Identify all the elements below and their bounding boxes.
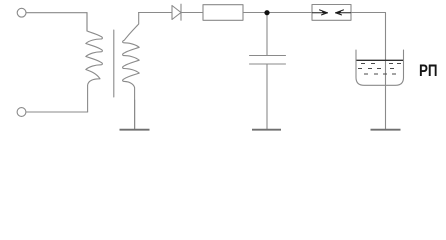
wire: capacitor to ground: [266, 64, 268, 129]
capacitor C1 bottom plate: [250, 63, 286, 65]
arrester F1 box: [312, 5, 351, 21]
transformer T1 core: [113, 30, 115, 97]
ground bar under secondary: [120, 129, 150, 131]
wire: node to capacitor: [266, 13, 268, 56]
capacitor C1 top plate: [250, 55, 286, 57]
wire: secondary bottom to ground: [134, 100, 136, 129]
svg-text:РП: РП: [419, 62, 438, 80]
wire: primary bottom to terminal X2: [26, 111, 88, 113]
ground bar under capacitor: [252, 129, 281, 131]
wire: diode to resistor: [181, 12, 203, 14]
wire: resistor to node: [243, 12, 312, 14]
transformer T1 primary winding: [86, 13, 103, 113]
arrester F1 left arrow: [313, 10, 328, 15]
wire: top terminal to primary: [26, 13, 87, 31]
terminal X1 (top input circle): [17, 8, 26, 17]
resistor R1: [203, 5, 243, 21]
bath electrode wire: [385, 50, 387, 129]
bath liquid dashes row 3: [364, 73, 396, 75]
bath container (electrolytic cell): [356, 50, 404, 85]
diode VD1 cathode bar: [180, 4, 182, 20]
terminal X2 (bottom input circle): [17, 108, 26, 117]
bath liquid level line: [357, 59, 404, 61]
node A (junction dot): [264, 10, 269, 15]
diode VD1 triangle: [172, 6, 181, 20]
bath liquid dashes row 2: [358, 68, 394, 70]
ground bar under bath: [371, 129, 401, 131]
arrester F1 right arrow: [336, 10, 351, 15]
wire: secondary top to diode: [139, 12, 173, 14]
bath liquid dashes row 1: [361, 63, 401, 65]
wire: arrester to bath electrode: [351, 13, 386, 51]
transformer T1 secondary winding: [123, 13, 140, 130]
